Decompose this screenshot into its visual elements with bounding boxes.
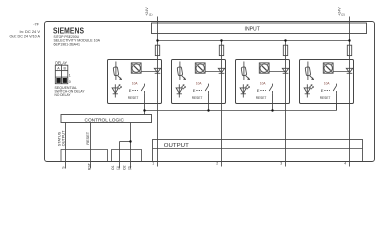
svg-text:O1: O1	[111, 165, 115, 170]
svg-text:INPUT: INPUT	[245, 27, 260, 33]
svg-text:RESET: RESET	[192, 95, 203, 100]
svg-text:3: 3	[280, 162, 282, 166]
svg-text:-7F: -7F	[33, 23, 39, 27]
svg-text:RST: RST	[87, 163, 91, 170]
svg-text:RESET: RESET	[86, 131, 90, 144]
svg-text:1: 1	[69, 73, 71, 77]
svg-text:In: DC 24 V: In: DC 24 V	[20, 30, 41, 34]
svg-text:0: 0	[69, 80, 71, 84]
svg-text:(1): (1)	[116, 166, 120, 170]
svg-text:10A: 10A	[196, 82, 202, 86]
svg-text:O2: O2	[122, 165, 126, 170]
svg-text:10A: 10A	[260, 82, 266, 86]
svg-text:RESET: RESET	[128, 95, 139, 100]
svg-text:(1): (1)	[149, 13, 153, 17]
svg-text:E: E	[193, 88, 196, 93]
svg-text:DELAY: DELAY	[55, 60, 67, 65]
svg-text:10A: 10A	[132, 82, 138, 86]
svg-text:10A: 10A	[324, 82, 330, 86]
svg-text:RESET: RESET	[320, 95, 331, 100]
svg-text:OUTPUT: OUTPUT	[164, 143, 190, 149]
svg-text:E: E	[321, 88, 324, 93]
svg-text:(2): (2)	[128, 166, 132, 170]
svg-text:OUTPUT: OUTPUT	[62, 130, 66, 146]
svg-text:NO DELAY: NO DELAY	[55, 93, 72, 97]
svg-text:(2): (2)	[341, 13, 345, 17]
svg-text:1: 1	[152, 162, 154, 166]
svg-text:E: E	[129, 88, 132, 93]
svg-text:6EP1961-2BA41: 6EP1961-2BA41	[54, 43, 81, 47]
svg-text:Out: DC 24 V/10 A: Out: DC 24 V/10 A	[10, 34, 41, 38]
svg-text:CONTROL LOGIC: CONTROL LOGIC	[85, 117, 125, 123]
svg-text:E: E	[257, 88, 260, 93]
svg-text:4: 4	[344, 162, 346, 166]
svg-text:2: 2	[216, 162, 218, 166]
svg-text:RESET: RESET	[256, 95, 267, 100]
